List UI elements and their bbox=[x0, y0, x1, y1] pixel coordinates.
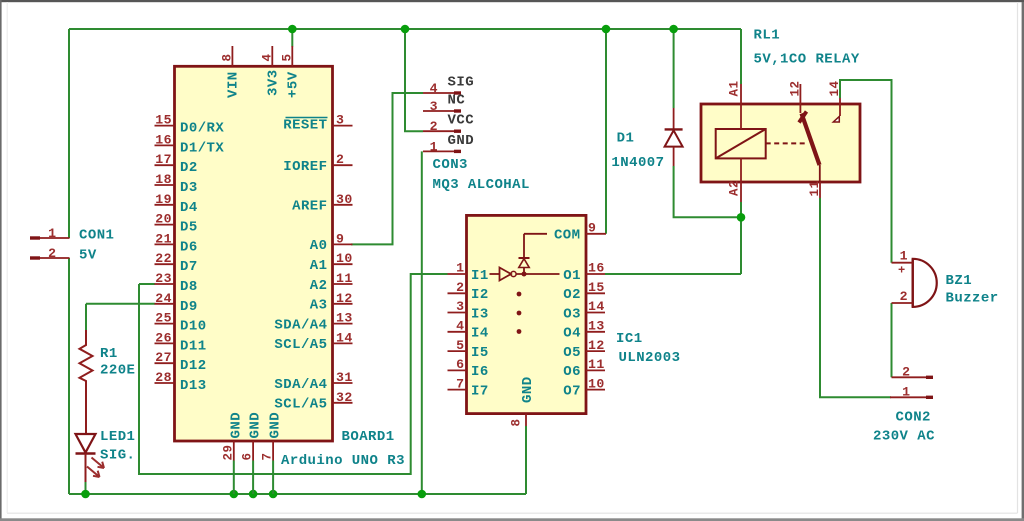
svg-text:D10: D10 bbox=[180, 319, 207, 335]
svg-text:A1: A1 bbox=[728, 81, 742, 97]
svg-text:18: 18 bbox=[155, 172, 172, 187]
svg-text:I1: I1 bbox=[471, 268, 489, 284]
BOARD1 pin 3 RESET bbox=[333, 125, 353, 127]
svg-text:27: 27 bbox=[155, 350, 172, 365]
svg-text:ULN2003: ULN2003 bbox=[619, 350, 681, 366]
resistor R1 bbox=[80, 330, 93, 434]
svg-text:14: 14 bbox=[588, 299, 605, 314]
connector CON1 pin 1 bbox=[30, 236, 40, 239]
svg-text:19: 19 bbox=[155, 192, 172, 207]
svg-text:1: 1 bbox=[456, 261, 464, 276]
connector CON2 pin 2 bbox=[892, 376, 927, 378]
junction 5V/VCC bbox=[401, 25, 410, 34]
svg-text:9: 9 bbox=[336, 231, 344, 246]
IC1 ellipsis dots bbox=[517, 292, 522, 297]
svg-text:9: 9 bbox=[588, 221, 596, 236]
BZ1 pin 1 bbox=[892, 262, 913, 264]
svg-text:GND: GND bbox=[248, 412, 264, 439]
svg-text:12: 12 bbox=[789, 81, 803, 97]
LED LED1 bbox=[76, 434, 96, 453]
IC1 pin 8 GND bbox=[525, 414, 527, 426]
wire LED1 cathode to rail bbox=[85, 482, 87, 494]
junction GND LED1 bbox=[81, 490, 90, 499]
BOARD1 pin 19 D4 bbox=[155, 204, 175, 206]
svg-text:1N4007: 1N4007 bbox=[611, 155, 664, 171]
svg-text:A0: A0 bbox=[310, 238, 328, 254]
svg-text:31: 31 bbox=[336, 370, 353, 385]
svg-text:2: 2 bbox=[336, 152, 344, 167]
Arduino UNO R3 BOARD1 body bbox=[175, 66, 333, 441]
svg-text:17: 17 bbox=[155, 152, 172, 167]
BOARD1 pin 14 SCL/A5 bbox=[333, 342, 353, 344]
svg-text:8: 8 bbox=[221, 54, 235, 62]
junction GND CON3 bbox=[418, 490, 427, 499]
svg-text:8: 8 bbox=[510, 419, 524, 427]
svg-text:D5: D5 bbox=[180, 220, 198, 236]
svg-text:3: 3 bbox=[456, 299, 464, 314]
svg-text:11: 11 bbox=[588, 357, 605, 372]
svg-text:D3: D3 bbox=[180, 180, 198, 196]
svg-text:5V,1CO RELAY: 5V,1CO RELAY bbox=[754, 52, 860, 68]
svg-text:2: 2 bbox=[48, 246, 56, 261]
svg-text:230V AC: 230V AC bbox=[873, 429, 935, 445]
wire GND rail to IC1 pin8 bbox=[525, 426, 527, 494]
svg-text:A1: A1 bbox=[310, 258, 328, 274]
svg-text:5V: 5V bbox=[79, 248, 97, 264]
svg-text:6: 6 bbox=[241, 453, 255, 461]
connector CON3 pin 4 SIG bbox=[423, 92, 454, 94]
IC1 pin 1 I1 bbox=[448, 273, 467, 275]
svg-text:IOREF: IOREF bbox=[283, 159, 327, 175]
IC1 internal inverter bbox=[490, 273, 500, 275]
IC1 pin 13 O4 bbox=[586, 331, 605, 333]
BOARD1 pin 5 +5V bbox=[291, 46, 293, 66]
BOARD1 pin 28 D13 bbox=[155, 382, 175, 384]
svg-text:SCL/A5: SCL/A5 bbox=[274, 337, 327, 353]
IC1 pin 3 I3 bbox=[448, 312, 467, 314]
svg-text:11: 11 bbox=[336, 271, 353, 286]
BZ1 pin 2 bbox=[892, 302, 913, 304]
RL1 switch arm bbox=[799, 112, 807, 123]
wire D9 to R1 bbox=[85, 304, 87, 330]
wire 5V to CON3 VCC bbox=[405, 29, 423, 131]
svg-text:2: 2 bbox=[456, 280, 464, 295]
BOARD1 pin 25 D10 bbox=[155, 323, 175, 325]
BOARD1 pin 23 D8 bbox=[155, 283, 175, 285]
svg-text:30: 30 bbox=[336, 192, 353, 207]
svg-text:D13: D13 bbox=[180, 378, 207, 394]
svg-text:GND: GND bbox=[268, 412, 284, 439]
svg-text:13: 13 bbox=[588, 319, 605, 334]
svg-text:D7: D7 bbox=[180, 259, 198, 275]
BOARD1 pin 21 D6 bbox=[155, 243, 175, 245]
svg-text:RL1: RL1 bbox=[754, 28, 781, 44]
svg-text:BOARD1: BOARD1 bbox=[342, 429, 395, 445]
svg-text:4: 4 bbox=[456, 319, 464, 334]
svg-text:1: 1 bbox=[48, 226, 56, 241]
buzzer BZ1 body bbox=[913, 259, 937, 307]
BOARD1 pin 31 SDA/A4 bbox=[333, 382, 353, 384]
svg-text:I3: I3 bbox=[471, 306, 489, 322]
svg-text:13: 13 bbox=[336, 311, 353, 326]
svg-text:AREF: AREF bbox=[292, 199, 327, 215]
IC1 internal diode bbox=[523, 234, 525, 258]
RL1 dashed link bbox=[766, 142, 807, 144]
BOARD1 pin 24 D9 bbox=[155, 303, 175, 305]
svg-text:O1: O1 bbox=[563, 268, 581, 284]
IC1 pin 5 I5 bbox=[448, 350, 467, 352]
svg-text:GND: GND bbox=[520, 376, 536, 403]
svg-text:14: 14 bbox=[828, 81, 842, 97]
wire relay pin11 to CON2 pin1 bbox=[820, 198, 891, 397]
BOARD1 pin 32 SCL/A5 bbox=[333, 402, 353, 404]
connector CON3 pin 3 NC bbox=[423, 110, 454, 112]
IC1 pin 10 O7 bbox=[586, 389, 605, 391]
svg-text:GND: GND bbox=[448, 133, 475, 149]
svg-text:3V3: 3V3 bbox=[266, 69, 282, 96]
svg-text:GND: GND bbox=[228, 412, 244, 439]
IC1 pin 14 O3 bbox=[586, 312, 605, 314]
svg-text:O4: O4 bbox=[563, 326, 581, 342]
svg-text:RESET: RESET bbox=[283, 118, 327, 134]
svg-text:BZ1: BZ1 bbox=[946, 273, 973, 289]
svg-text:D11: D11 bbox=[180, 338, 207, 354]
BOARD1 pin 20 D5 bbox=[155, 224, 175, 226]
LED1 arrows bbox=[92, 458, 105, 469]
BOARD1 pin 30 AREF bbox=[333, 204, 353, 206]
svg-text:A2: A2 bbox=[728, 180, 742, 196]
svg-text:16: 16 bbox=[588, 261, 605, 276]
svg-text:A3: A3 bbox=[310, 298, 328, 314]
svg-text:2: 2 bbox=[902, 365, 910, 380]
wire A0 to CON3 SIG bbox=[351, 93, 423, 244]
svg-text:D2: D2 bbox=[180, 160, 198, 176]
RL1 pin 12 common bbox=[799, 84, 801, 113]
svg-text:SDA/A4: SDA/A4 bbox=[274, 317, 327, 333]
wire D8 stub link bbox=[139, 283, 155, 285]
RL1 pin A2 bbox=[740, 158, 742, 202]
svg-text:3: 3 bbox=[336, 113, 344, 128]
BOARD1 pin 27 D12 bbox=[155, 362, 175, 364]
BOARD1 pin 22 D7 bbox=[155, 263, 175, 265]
svg-text:25: 25 bbox=[155, 311, 172, 326]
svg-text:VIN: VIN bbox=[226, 71, 242, 98]
wire D1 anode to node A2 bbox=[674, 166, 741, 217]
svg-text:14: 14 bbox=[336, 330, 353, 345]
wire D8 to IC1 I1 bbox=[139, 274, 448, 474]
svg-text:12: 12 bbox=[336, 291, 353, 306]
BOARD1 pin 29 GND bbox=[233, 441, 235, 461]
BOARD1 pin 6 GND bbox=[252, 441, 254, 461]
svg-text:28: 28 bbox=[155, 370, 172, 385]
wire 5V top rail bbox=[69, 28, 741, 30]
wire 5V to D1 cathode bbox=[673, 29, 675, 108]
wire CON3 GND drop bbox=[421, 151, 423, 494]
svg-text:SDA/A4: SDA/A4 bbox=[274, 377, 327, 393]
svg-text:D1: D1 bbox=[617, 131, 635, 147]
svg-text:R1: R1 bbox=[100, 346, 118, 362]
wire 5V to relay A1 bbox=[740, 29, 742, 84]
svg-text:16: 16 bbox=[155, 132, 172, 147]
svg-text:O5: O5 bbox=[563, 345, 581, 361]
svg-text:1: 1 bbox=[430, 139, 438, 154]
svg-text:MQ3 ALCOHAL: MQ3 ALCOHAL bbox=[433, 177, 530, 193]
svg-text:D0/RX: D0/RX bbox=[180, 121, 224, 137]
BOARD1 pin 18 D3 bbox=[155, 184, 175, 186]
BOARD1 pin 2 IOREF bbox=[333, 164, 353, 166]
svg-text:COM: COM bbox=[554, 228, 581, 244]
connector CON2 pin 1 bbox=[890, 396, 926, 398]
svg-text:I5: I5 bbox=[471, 345, 489, 361]
svg-text:5: 5 bbox=[456, 338, 464, 353]
svg-text:VCC: VCC bbox=[448, 113, 475, 129]
svg-text:2: 2 bbox=[900, 289, 908, 304]
BOARD1 pin 12 A3 bbox=[333, 303, 353, 305]
svg-text:D9: D9 bbox=[180, 299, 198, 315]
svg-text:6: 6 bbox=[456, 357, 464, 372]
svg-text:+5V: +5V bbox=[286, 71, 302, 98]
svg-text:26: 26 bbox=[155, 330, 172, 345]
BOARD1 pin 7 GND bbox=[272, 441, 274, 461]
BOARD1 pin 13 SDA/A4 bbox=[333, 323, 353, 325]
svg-text:O7: O7 bbox=[563, 383, 581, 399]
svg-text:22: 22 bbox=[155, 251, 172, 266]
svg-text:10: 10 bbox=[336, 251, 353, 266]
svg-text:29: 29 bbox=[221, 445, 235, 461]
BOARD1 pin 26 D11 bbox=[155, 342, 175, 344]
wire buzzer pin2 to CON2 pin2 bbox=[891, 303, 893, 377]
svg-text:21: 21 bbox=[155, 231, 172, 246]
RL1 pin 11 bbox=[819, 182, 821, 198]
svg-text:24: 24 bbox=[155, 291, 172, 306]
BOARD1 pin 9 A0 bbox=[333, 243, 353, 245]
wire GND bottom rail bbox=[69, 493, 526, 495]
svg-text:1: 1 bbox=[902, 385, 910, 400]
svg-text:10: 10 bbox=[588, 376, 605, 391]
BOARD1 pin 4 3V3 bbox=[271, 46, 273, 66]
IC1 pin 7 I7 bbox=[448, 389, 467, 391]
svg-text:4: 4 bbox=[261, 54, 275, 62]
junction GND pin7 bbox=[269, 490, 278, 499]
RL1 pin 14 NO contact bbox=[839, 98, 841, 116]
wire relay pin14 to buzzer pin1 bbox=[840, 80, 892, 263]
svg-text:D1/TX: D1/TX bbox=[180, 140, 224, 156]
BOARD1 pin 17 D2 bbox=[155, 164, 175, 166]
connector CON1 pin 2 bbox=[30, 256, 40, 259]
svg-text:I7: I7 bbox=[471, 383, 489, 399]
svg-text:+: + bbox=[898, 264, 906, 278]
svg-text:CON2: CON2 bbox=[896, 410, 931, 426]
BOARD1 pin 8 VIN bbox=[231, 46, 233, 66]
BOARD1 pin 10 A1 bbox=[333, 263, 353, 265]
svg-text:5: 5 bbox=[281, 54, 295, 62]
junction 5V/COM bbox=[602, 25, 611, 34]
svg-text:I6: I6 bbox=[471, 364, 489, 380]
wire 5V to IC1 COM bbox=[605, 29, 607, 234]
svg-text:IC1: IC1 bbox=[616, 331, 643, 347]
svg-text:15: 15 bbox=[155, 113, 172, 128]
svg-text:NC: NC bbox=[448, 93, 466, 109]
svg-text:A2: A2 bbox=[310, 278, 328, 294]
svg-text:32: 32 bbox=[336, 390, 353, 405]
IC1 pin 2 I2 bbox=[448, 292, 467, 294]
wire 5V to Arduino +5V bbox=[291, 29, 293, 47]
junction 5V/D1 bbox=[669, 25, 678, 34]
svg-text:LED1: LED1 bbox=[100, 429, 135, 445]
BOARD1 pin 16 D1/TX bbox=[155, 144, 175, 146]
svg-text:O6: O6 bbox=[563, 364, 581, 380]
svg-text:4: 4 bbox=[430, 81, 438, 96]
svg-text:D4: D4 bbox=[180, 200, 198, 216]
node A2 bbox=[737, 213, 746, 222]
svg-text:D6: D6 bbox=[180, 239, 198, 255]
junction GND pin6 bbox=[249, 490, 258, 499]
wire GND CON1 pin2 drop bbox=[68, 258, 70, 494]
svg-text:1: 1 bbox=[900, 249, 908, 264]
svg-text:20: 20 bbox=[155, 212, 172, 227]
IC1 pin 11 O6 bbox=[586, 369, 605, 371]
wire 5V to CON1 pin1 bbox=[68, 29, 70, 238]
svg-text:7: 7 bbox=[261, 453, 275, 461]
junction GND pin29 bbox=[230, 490, 239, 499]
svg-text:D12: D12 bbox=[180, 358, 207, 374]
svg-text:11: 11 bbox=[808, 181, 822, 197]
IC1 pin 6 I6 bbox=[448, 369, 467, 371]
IC1 pin 9 COM bbox=[586, 233, 606, 235]
junction 5V/+5V bbox=[288, 25, 297, 34]
svg-text:SCL/A5: SCL/A5 bbox=[274, 397, 327, 413]
svg-text:220E: 220E bbox=[100, 363, 135, 379]
svg-text:23: 23 bbox=[155, 271, 172, 286]
BOARD1 pin 11 A2 bbox=[333, 283, 353, 285]
relay RL1 body bbox=[701, 104, 860, 182]
diode D1 1N4007 bbox=[673, 108, 675, 129]
svg-text:D8: D8 bbox=[180, 279, 198, 295]
svg-text:CON1: CON1 bbox=[79, 228, 114, 244]
RL1 coil bbox=[716, 129, 766, 158]
svg-text:Arduino UNO R3: Arduino UNO R3 bbox=[281, 453, 405, 469]
IC1 pin 4 I4 bbox=[448, 331, 467, 333]
svg-text:O2: O2 bbox=[563, 287, 581, 303]
svg-text:12: 12 bbox=[588, 338, 605, 353]
IC U1 ULN2003 body bbox=[467, 215, 587, 413]
svg-text:I2: I2 bbox=[471, 287, 489, 303]
svg-text:CON3: CON3 bbox=[433, 157, 468, 173]
connector CON3 pin 2 VCC bbox=[423, 130, 454, 132]
IC1 pin 12 O5 bbox=[586, 350, 605, 352]
BOARD1 pin 15 D0/RX bbox=[155, 125, 175, 127]
RL1 pin A1 bbox=[740, 84, 742, 129]
IC1 pin 16 O1 bbox=[586, 273, 605, 275]
wire relay A2 to O1 riser bbox=[740, 202, 742, 274]
svg-text:O3: O3 bbox=[563, 306, 581, 322]
svg-text:SIG: SIG bbox=[448, 75, 475, 91]
svg-text:15: 15 bbox=[588, 280, 605, 295]
svg-text:Buzzer: Buzzer bbox=[946, 291, 999, 307]
svg-text:SIG.: SIG. bbox=[100, 448, 135, 464]
connector CON3 pin 1 GND bbox=[423, 150, 454, 152]
svg-text:2: 2 bbox=[430, 119, 438, 134]
svg-text:3: 3 bbox=[430, 99, 438, 114]
wire IC1 O1 out bbox=[605, 273, 741, 275]
svg-text:7: 7 bbox=[456, 376, 464, 391]
wire D9 link bbox=[86, 303, 155, 305]
svg-text:I4: I4 bbox=[471, 326, 489, 342]
IC1 pin 15 O2 bbox=[586, 292, 605, 294]
